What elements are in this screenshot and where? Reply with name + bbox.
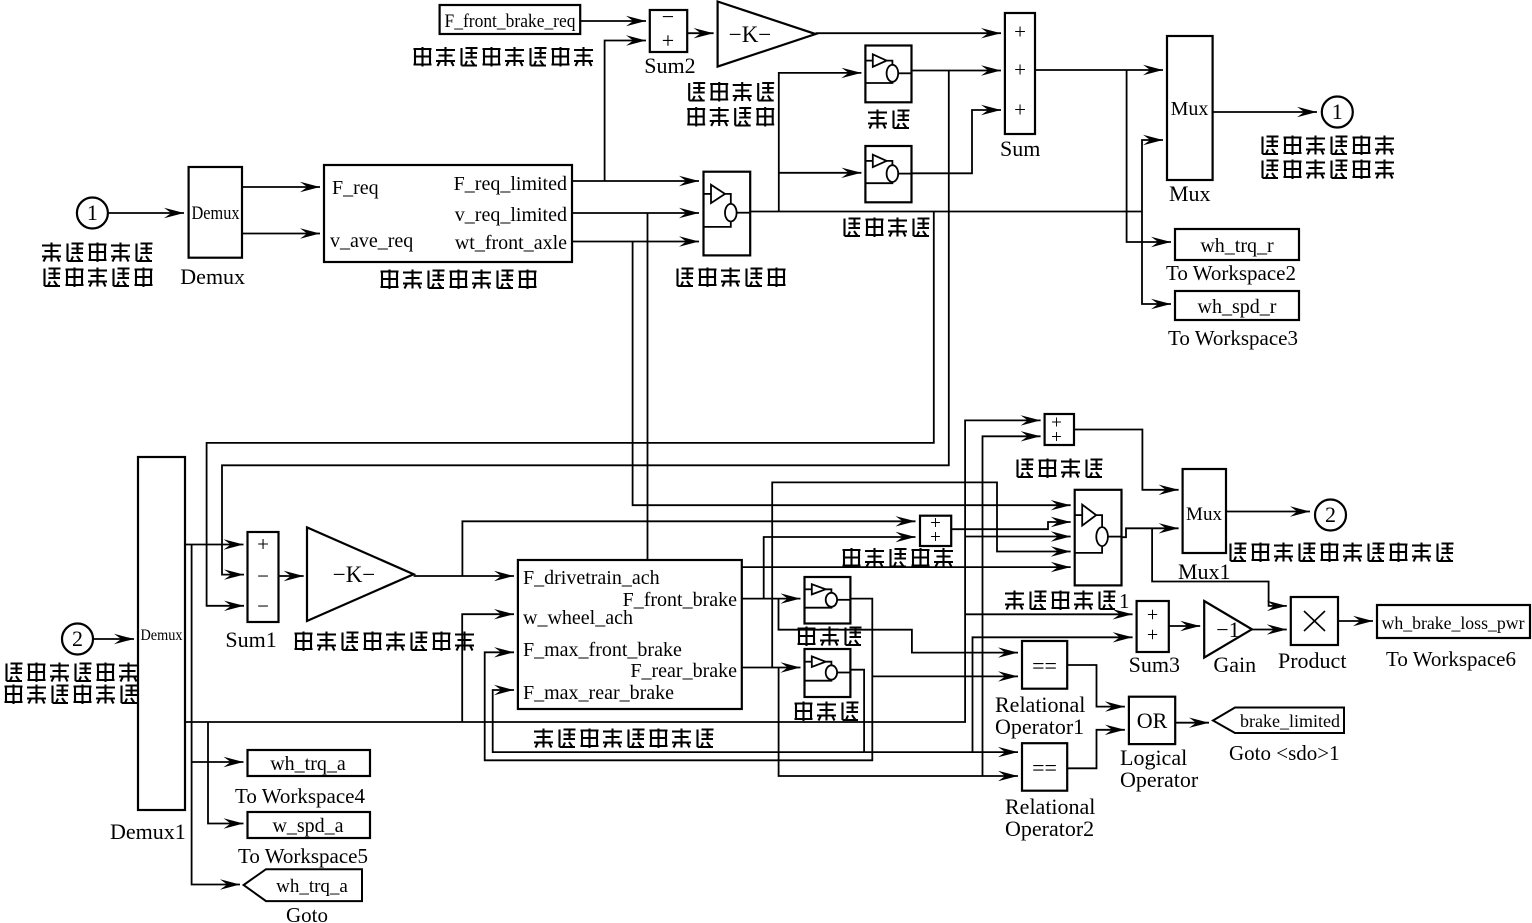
block tire slip (704, 172, 751, 256)
svg-text:+: + (1147, 604, 1158, 626)
block Relational Operator2 (1022, 743, 1067, 791)
svg-text:+: + (930, 527, 941, 548)
wire junction up to Mux in2 (1142, 140, 1163, 212)
block rear brake (805, 649, 851, 697)
wire branch up-over to slip1 in4 (772, 482, 1070, 667)
svg-text:F_req: F_req (332, 177, 379, 199)
label demanded drivetrain line2 (1263, 160, 1395, 180)
block Sum2 (650, 10, 687, 52)
svg-text:wh_trq_a: wh_trq_a (270, 753, 346, 775)
block wh_trq_r (1175, 229, 1299, 260)
svg-text:+: + (662, 28, 674, 53)
svg-text:2: 2 (1325, 502, 1336, 527)
label wheel demand drive line2 (45, 268, 153, 288)
block wh_spd_r (1175, 291, 1299, 320)
svg-text:F_rear_brake: F_rear_brake (630, 660, 737, 682)
block Sum3 (1137, 601, 1169, 652)
label drivetrain provides line2 (5, 685, 138, 705)
svg-text:Demux: Demux (192, 203, 240, 224)
block traction control interface (324, 165, 572, 262)
wire speed tee to slip1 in3 (965, 536, 1071, 538)
svg-text:Goto <sdo>1: Goto <sdo>1 (1229, 741, 1340, 765)
wire line A: slip branch to Sum1 minus2 (207, 212, 934, 606)
wire junction down to wh_spd_r (1142, 212, 1171, 305)
label drivetrain line2 (687, 107, 774, 127)
label inertia effect (845, 218, 930, 238)
wire speed branch to w_spd_a (208, 722, 244, 824)
wire branch down to RelOp2 in2 (779, 668, 1018, 777)
wire tee up to Sum3 in2 (973, 637, 1133, 752)
wire gain -K- to Sum in1 (816, 32, 1001, 34)
block Product (1291, 597, 1338, 645)
gain -K- drivetrain torque (718, 2, 816, 67)
label wheel actual traction and speed (1231, 543, 1454, 563)
label tire contact traction (295, 632, 475, 652)
svg-text:−: − (662, 4, 674, 29)
svg-text:Mux: Mux (1186, 504, 1222, 525)
wire Mux1 out to Out2 (1226, 511, 1310, 513)
goto tag wh_trq_a (244, 869, 362, 901)
wire F_front_brake_req to Sum2 minus (580, 20, 646, 22)
wire branch up to front-traction in1 (462, 521, 915, 576)
wire front-brake out down-left to F_max_front_brake (485, 599, 873, 761)
svg-text:F_req_limited: F_req_limited (454, 173, 567, 195)
svg-text:Product: Product (1278, 648, 1346, 673)
svg-text:To Workspace3: To Workspace3 (1168, 326, 1298, 350)
svg-text:To Workspace6: To Workspace6 (1386, 647, 1516, 671)
block F_front_brake_req (440, 5, 581, 34)
block w_spd_a (248, 812, 371, 838)
wire OR out to goto tag (1175, 722, 1209, 724)
icon tire slip 1 (1075, 505, 1122, 553)
svg-text:2: 2 (72, 626, 83, 651)
svg-text:wh_trq_a: wh_trq_a (276, 876, 348, 897)
icon rear brake (805, 656, 851, 680)
svg-text:F_max_rear_brake: F_max_rear_brake (523, 682, 674, 704)
wire rear-brake out down to tee (850, 670, 864, 752)
label traction control interface (381, 270, 537, 290)
svg-text:Demux: Demux (141, 627, 183, 644)
wire slip1 branch to Product in1 (1152, 528, 1287, 606)
wire F_req_limited to tire-slip in1 (572, 180, 699, 182)
wire tee left to F_max_rear_brake (493, 690, 864, 752)
wire branch up to front-traction in2 (764, 537, 916, 599)
svg-text:F_drivetrain_ach: F_drivetrain_ach (523, 567, 660, 589)
block wh_brake_loss_pwr (1377, 605, 1530, 638)
outport 1 (1322, 97, 1353, 128)
svg-text:Sum3: Sum3 (1129, 652, 1180, 677)
svg-text:+: + (257, 532, 269, 556)
svg-text:−: − (257, 594, 269, 618)
block front traction sum (920, 516, 951, 546)
label total traction (1018, 459, 1103, 479)
svg-text:Operator1: Operator1 (995, 714, 1084, 739)
svg-text:To Workspace4: To Workspace4 (235, 784, 365, 808)
block Demux (189, 167, 242, 258)
svg-text:Sum1: Sum1 (225, 627, 276, 652)
block tire slip 1 (1075, 490, 1122, 586)
wire line B: loss branch to Sum1 minus1 (222, 71, 949, 575)
wire F_rear_brake to rear-brake block (742, 667, 801, 669)
wire loss out to Sum in2 (912, 70, 1002, 72)
svg-text:+: + (1147, 624, 1158, 646)
svg-text:Mux: Mux (1169, 181, 1211, 206)
wire Sum1 out to gain1 (279, 575, 304, 577)
svg-text:w_spd_a: w_spd_a (272, 815, 343, 837)
svg-text:Mux: Mux (1171, 98, 1209, 120)
label tire slip 1 cjk (1005, 591, 1116, 611)
wire RelOp2 out to OR in2 (1067, 730, 1125, 769)
block Sum1 (248, 532, 279, 622)
block total traction sum (1045, 414, 1074, 445)
svg-text:F_front_brake_req: F_front_brake_req (445, 11, 576, 32)
svg-text:−K−: −K− (729, 22, 772, 47)
svg-text:−1: −1 (1216, 617, 1239, 642)
svg-text:Operator2: Operator2 (1005, 816, 1094, 841)
svg-text:==: == (1032, 653, 1057, 678)
wire branch up to loss and inertia inputs (779, 73, 862, 212)
block Mux1 (1183, 469, 1226, 553)
svg-text:To Workspace5: To Workspace5 (238, 844, 368, 868)
wire v_req_limited to tire-slip in2 (572, 212, 699, 214)
label front wheel traction (843, 548, 954, 568)
svg-text:Demux: Demux (180, 264, 245, 289)
block inertia effect (865, 146, 911, 202)
wire Mux out to Out1 (1213, 111, 1317, 113)
svg-text:Mux1: Mux1 (1178, 559, 1231, 584)
block Demux1 (138, 457, 185, 810)
label brake demand control interface (414, 47, 594, 67)
wire branch down to wh_trq_r (1127, 70, 1171, 242)
block front brake (805, 577, 851, 624)
label front-rear brake control interface (534, 729, 714, 749)
svg-text:+: + (1014, 20, 1026, 44)
wire tee right to RelOp2 in1 (864, 751, 1018, 753)
wire Sum3 out to gain -1 (1169, 625, 1200, 627)
block Mux (1167, 36, 1213, 180)
svg-text:F_front_brake: F_front_brake (623, 589, 738, 611)
block front-rear brake control interface (518, 560, 742, 709)
svg-text:F_max_front_brake: F_max_front_brake (523, 639, 682, 661)
svg-text:wh_trq_r: wh_trq_r (1200, 235, 1274, 257)
gain -K- tire contact traction (307, 527, 414, 621)
svg-text:wh_spd_r: wh_spd_r (1198, 296, 1277, 318)
wire speed branch to w_wheel_ach (462, 614, 514, 722)
wire branch up to Sum2 plus (605, 41, 646, 182)
svg-text:+: + (1014, 58, 1026, 82)
svg-text:1: 1 (1332, 99, 1343, 124)
wire Demux out1 to F_req (242, 186, 320, 188)
wire total-traction out to Mux1 in1 (1074, 430, 1179, 490)
svg-text:−K−: −K− (333, 562, 376, 587)
wire branch down to RelOp1 in1 (779, 599, 1019, 653)
svg-text:Demux1: Demux1 (110, 819, 186, 844)
wire front-traction out to slip1 in2 (951, 522, 1070, 529)
label front brake (798, 627, 862, 647)
label drivetrain line1 (689, 82, 774, 102)
label wheel demand drive line1 (42, 243, 153, 263)
wire tire-slip out to junction x1142 (750, 211, 1142, 213)
wire Product out to wh_brake_loss_pwr (1338, 620, 1373, 622)
svg-text:+: + (1051, 427, 1062, 448)
wire RelOp1 out to OR in1 (1067, 665, 1125, 707)
wire F_front_brake to front-brake block (742, 598, 801, 600)
outport 2 (1315, 500, 1346, 531)
svg-text:−: − (257, 564, 269, 588)
icon inertia (865, 155, 911, 184)
block loss (sunhao) (865, 46, 911, 103)
wire Demux out2 to v_ave_req (242, 233, 320, 235)
wire gain -1 out to Product in2 (1252, 629, 1287, 631)
svg-text:Gain: Gain (1213, 652, 1256, 677)
svg-text:==: == (1032, 755, 1057, 780)
goto tag brake_limited (1213, 708, 1344, 734)
inport 1 (77, 198, 108, 229)
svg-text:Operator: Operator (1120, 767, 1199, 792)
label demanded drivetrain line1 (1263, 136, 1395, 156)
icon product cross (1304, 611, 1325, 631)
wire tee to wh_trq_a (192, 761, 244, 763)
wire tee to RelOp1 in2 (872, 675, 1018, 677)
wire Sum out to Mux in1 (1035, 69, 1163, 71)
svg-text:Sum: Sum (1000, 136, 1040, 161)
label rear brake (795, 702, 859, 722)
block Relational Operator1 (1022, 641, 1067, 689)
block Sum (1005, 13, 1035, 134)
wire Demux1 out2 speed line to total-traction in1 (185, 420, 1041, 722)
icon loss (865, 54, 911, 83)
wire wt branch down to slip1 in1 (633, 242, 1071, 506)
svg-text:1: 1 (1119, 589, 1130, 613)
svg-text:v_ave_req: v_ave_req (330, 230, 413, 252)
label loss (868, 110, 910, 129)
svg-text:Sum2: Sum2 (644, 53, 695, 78)
wire In2 to Demux1 (94, 638, 134, 640)
label tire slip (678, 268, 786, 288)
svg-text:To Workspace2: To Workspace2 (1166, 261, 1296, 285)
svg-text:OR: OR (1137, 708, 1168, 733)
block wh_trq_a (248, 750, 371, 776)
svg-text:w_wheel_ach: w_wheel_ach (523, 607, 633, 629)
label drivetrain provides line1 (7, 663, 139, 683)
svg-text:1: 1 (87, 200, 98, 225)
icon front brake (805, 584, 851, 608)
svg-text:v_req_limited: v_req_limited (455, 204, 567, 226)
wire slip1 out to Mux1 in2 (1122, 528, 1179, 537)
svg-text:wt_front_axle: wt_front_axle (455, 232, 567, 254)
wire Sum2 to gain -K- (687, 32, 713, 34)
wire torque branch down (192, 545, 240, 885)
inport 2 (62, 624, 93, 655)
wire speed tee to Sum3 in1 (965, 613, 1133, 615)
wire Demux1 out1 to Sum1 plus (185, 544, 244, 546)
svg-text:+: + (1014, 98, 1026, 122)
svg-text:brake_limited: brake_limited (1240, 711, 1340, 731)
block Logical Operator OR (1129, 697, 1175, 744)
svg-text:Goto: Goto (286, 903, 328, 923)
wire tee up to total-traction in2 (983, 436, 1041, 776)
wire In1 to Demux (108, 212, 184, 214)
wire gain1 out to F_drivetrain_ach (414, 575, 514, 577)
wire v_req branch down to slip1 in5 (648, 213, 1071, 567)
gain -1 (1204, 601, 1252, 658)
wire tee to inertia input (779, 172, 862, 174)
icon tire slip (704, 185, 751, 227)
wire inertia out to Sum in3 (912, 110, 1002, 173)
svg-text:wh_brake_loss_pwr: wh_brake_loss_pwr (1382, 613, 1525, 633)
wire wt_front_axle to tire-slip in3 (572, 241, 699, 243)
